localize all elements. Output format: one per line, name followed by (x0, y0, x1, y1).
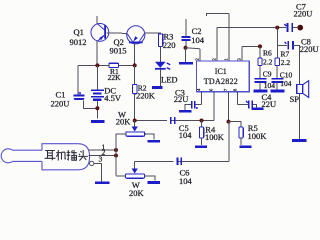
capacitor C2 (182, 19, 191, 48)
ground under C3 (179, 110, 192, 113)
wire Q1 collector stub (96, 16, 98, 24)
capacitor C8 (285, 41, 300, 84)
wire R6 top lead (259, 46, 261, 58)
node line2 junction (114, 154, 118, 158)
label R4 100K (205, 125, 225, 143)
wire R7 branch vertical (276, 28, 278, 58)
svg-text:20K: 20K (116, 117, 132, 127)
headphone plug (1, 144, 89, 170)
svg-text:Q1: Q1 (74, 27, 84, 37)
svg-text:9012: 9012 (70, 37, 87, 47)
wire top loop pin3 (206, 14, 229, 16)
wire input2 down to C6 (228, 122, 230, 162)
ground under C2 (179, 62, 193, 65)
pin bottom 3 (223, 88, 228, 122)
potentiometer W2 (116, 161, 155, 180)
label C8 220U (300, 36, 319, 54)
ground under C9 (254, 90, 268, 93)
capacitor C6 (174, 158, 182, 165)
IC U1 box TDA2822 (197, 61, 250, 92)
wire Q1 base to Q2 (107, 32, 128, 35)
wire C2 node down (185, 48, 187, 62)
label C10 104 (280, 71, 293, 89)
svg-text:C10: C10 (280, 71, 293, 80)
label R7 2.2 (281, 50, 291, 67)
capacitor C7 (284, 23, 297, 32)
transistor Q1 (91, 24, 109, 42)
terminal 3 (90, 161, 102, 181)
svg-text:104: 104 (191, 35, 205, 45)
svg-text:22K: 22K (108, 73, 122, 82)
capacitor C10 (272, 66, 284, 90)
label R6 2.2 (263, 49, 273, 67)
ground under battery (91, 120, 105, 123)
label DC 4.5V (104, 86, 122, 103)
wire Q2 collector to R3 (145, 32, 161, 35)
svg-text:220: 220 (163, 40, 176, 50)
svg-text:2.2: 2.2 (263, 58, 273, 67)
node line1 junction (114, 148, 118, 152)
svg-text:2.2: 2.2 (281, 58, 291, 67)
wire Q1 emitter down (96, 41, 98, 65)
wire Q2 base down (134, 44, 136, 66)
label R1 22K (108, 67, 122, 82)
node R4 junction (200, 119, 204, 123)
resistor R6 (258, 58, 262, 66)
wire R3 to LED (160, 47, 162, 63)
svg-text:4.5V: 4.5V (104, 93, 122, 103)
capacitor C4 (238, 101, 257, 109)
capacitor C3 (185, 101, 202, 110)
ground under R4 (195, 146, 207, 149)
svg-text:SP: SP (290, 94, 300, 104)
svg-text:IC1: IC1 (215, 67, 227, 76)
svg-text:100K: 100K (248, 131, 268, 141)
resistor R2 (133, 65, 137, 120)
capacitor C9 (255, 66, 267, 90)
label C9 104 (263, 70, 276, 91)
svg-text:220U: 220U (294, 9, 313, 19)
LED (155, 62, 170, 70)
svg-text:220U: 220U (300, 44, 319, 54)
label C4 22U (262, 92, 277, 109)
svg-text:3: 3 (99, 154, 103, 163)
wire C8 tap (277, 44, 287, 46)
resistor R4 (199, 121, 203, 146)
svg-text:104: 104 (280, 79, 292, 88)
potentiometer W1 (116, 121, 154, 148)
wire supply rail y65 (78, 64, 135, 66)
svg-text:R6: R6 (263, 49, 272, 58)
pin top 3 (224, 14, 229, 61)
ground under C4 (252, 108, 264, 110)
label Q1 9012 (70, 27, 87, 47)
capacitor C5 (167, 117, 175, 124)
svg-text:9015: 9015 (110, 46, 127, 56)
pin top 1 (195, 49, 200, 61)
label W1 20K (116, 110, 132, 127)
ground under W2 (148, 181, 160, 184)
label Q2 9015 (110, 37, 127, 55)
node supply junction (95, 63, 99, 67)
svg-text:20K: 20K (129, 188, 145, 198)
speaker SP (297, 81, 309, 139)
pin bottom 2 (209, 88, 214, 121)
svg-text:104: 104 (179, 130, 193, 140)
wire input1 rail y120.5 (135, 120, 214, 122)
label R5 100K (248, 123, 268, 141)
capacitor C1 (74, 65, 98, 108)
resistor R1 (109, 63, 119, 67)
ground under R5 (240, 146, 252, 149)
resistor R3 (158, 34, 162, 47)
svg-text:TDA2822: TDA2822 (204, 77, 238, 86)
wire C2 node to pin (186, 48, 200, 49)
ground under C10 (271, 90, 285, 93)
svg-text:220U: 220U (51, 99, 70, 109)
resistor R5 (239, 127, 243, 145)
label plug Chinese text (45, 150, 88, 161)
label C2 104 (191, 26, 205, 45)
label C7 220U (294, 2, 313, 19)
label C3 22U (174, 88, 189, 104)
node R1-R2 junction (133, 63, 137, 67)
wire pin4 to R6 (242, 45, 260, 47)
ground under W1 (148, 140, 161, 143)
label IC1 TDA2822 (204, 67, 238, 86)
node input2 junction (227, 120, 231, 124)
svg-text:220K: 220K (136, 91, 156, 101)
node C2 junction (184, 46, 188, 50)
transistor Q2 (127, 26, 145, 44)
wire input2 to R5 (229, 122, 242, 127)
pin top 2 (212, 28, 217, 61)
label R2 220K (136, 83, 156, 100)
svg-text:LED: LED (161, 75, 178, 85)
wire LED cathode down (159, 70, 161, 87)
ground under terminal 3 (95, 181, 110, 184)
wire C6 rail y161.3 (135, 160, 229, 162)
node battery-C1 junction (95, 106, 99, 110)
pin top 4 (237, 46, 242, 61)
label C6 104 (179, 168, 193, 186)
label W2 20K (129, 180, 145, 198)
label C5 104 (179, 123, 193, 140)
svg-text:22U: 22U (262, 99, 277, 109)
ground under LED (152, 86, 162, 89)
pin bottom 1 (196, 88, 201, 105)
svg-text:104: 104 (179, 176, 193, 186)
node pot1 wiper junction (133, 119, 137, 123)
node output terminal dot (297, 25, 303, 31)
wire Vout rail y27.6 (217, 27, 286, 29)
node rail-R7 junction (275, 26, 279, 30)
ground under speaker (292, 139, 307, 142)
svg-text:C9: C9 (263, 70, 272, 79)
label C1 220U (51, 89, 70, 108)
wire left bus vertical (115, 134, 117, 176)
wire plug line2 (89, 155, 117, 157)
pin bottom 4 (232, 88, 237, 105)
svg-text:100K: 100K (205, 132, 225, 142)
battery DC 4.5V (91, 65, 104, 118)
wire plug line1 (89, 149, 117, 151)
resistor R7 (275, 58, 279, 66)
label R3 220 (163, 32, 176, 50)
node R6 junction (258, 44, 262, 48)
svg-text:22U: 22U (174, 94, 189, 104)
